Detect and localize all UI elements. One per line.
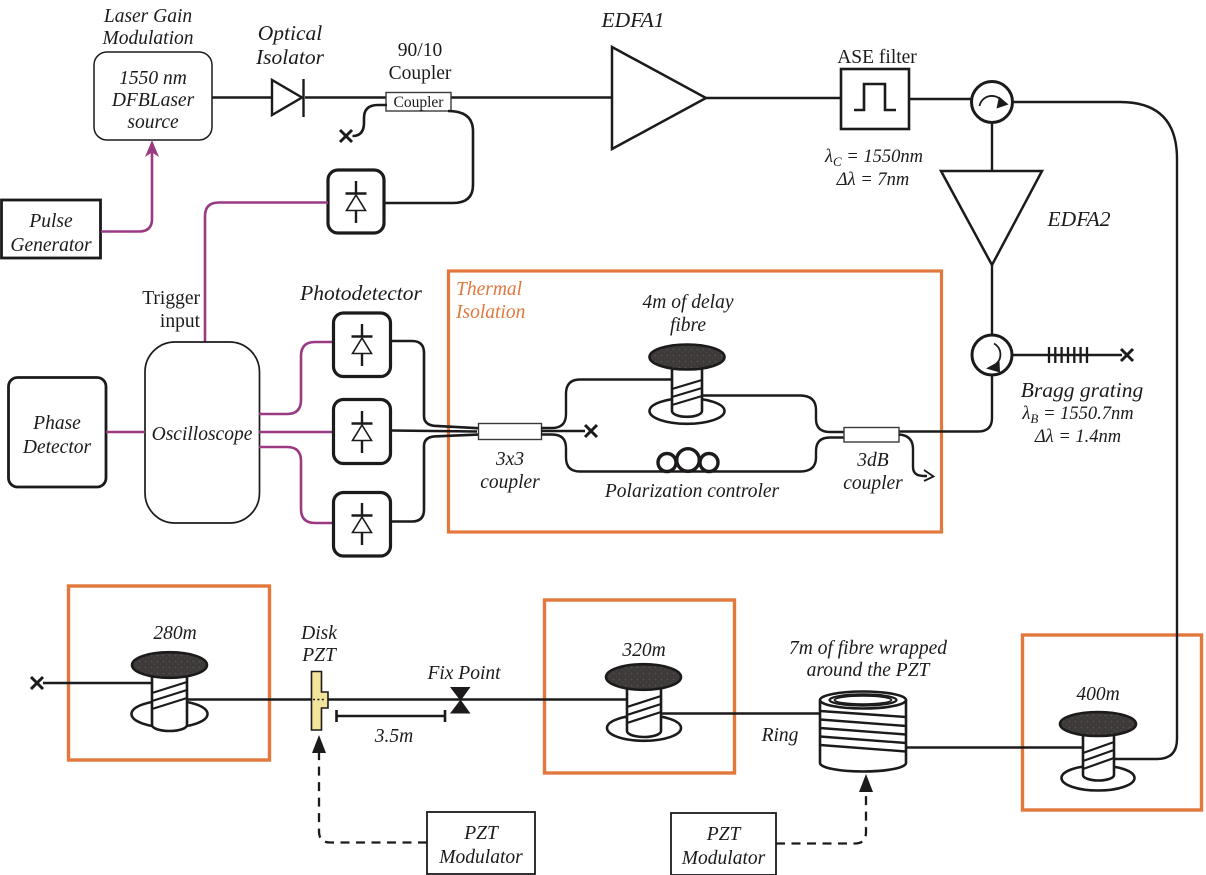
4m of delay fibre label (643, 292, 734, 336)
svg-text:Δλ = 7nm: Δλ = 7nm (836, 170, 909, 190)
svg-text:λB = 1550.7nm: λB = 1550.7nm (1021, 404, 1133, 426)
EDFA1 amplifier (612, 47, 706, 149)
wire coupler lower branch to monitor photodiode (384, 111, 473, 203)
black wire PD2 to 3x3 coupler (391, 431, 478, 432)
purple wire oscilloscope to PD3 (259, 447, 333, 523)
wire circulator2 bottom to 3dB coupler output (898, 375, 992, 432)
svg-text:Isolation: Isolation (455, 302, 525, 323)
orange box around 320m spool (545, 600, 735, 773)
wire 3x3 coupler top output to delay fibre (upper arm) (541, 380, 672, 429)
svg-text:Coupler: Coupler (389, 63, 452, 84)
purple wire oscilloscope to PD2 (259, 431, 333, 434)
wire circulator2 to bragg grating and X (1012, 354, 1122, 356)
svg-text:Modulation: Modulation (102, 28, 194, 49)
wire circulator1 right, feedback line down right side to 400m spool (1013, 102, 1177, 759)
svg-text:coupler: coupler (480, 472, 540, 493)
purple wire oscilloscope to PD1 (259, 342, 333, 414)
3x3 coupler box (479, 424, 542, 440)
PZT modulator box 1 (427, 812, 535, 874)
phase detector box (9, 378, 107, 488)
X mark below coupler (340, 130, 352, 142)
svg-text:320m: 320m (621, 640, 665, 661)
ASE bandpass icon (854, 84, 896, 110)
wire EDFA2 to circulator2 (991, 265, 993, 335)
svg-text:fibre: fibre (670, 315, 706, 336)
svg-text:Ring: Ring (761, 725, 799, 746)
svg-text:Coupler: Coupler (394, 94, 445, 111)
orange box around 400m spool (1023, 635, 1202, 810)
280m spool (132, 652, 208, 731)
svg-text:Pulse: Pulse (28, 211, 73, 232)
svg-text:source: source (127, 112, 179, 133)
3.5m measurement line (337, 710, 446, 722)
svg-text:Disk: Disk (300, 623, 337, 644)
svg-text:Δλ = 1.4nm: Δλ = 1.4nm (1034, 427, 1121, 447)
svg-text:ASE filter: ASE filter (837, 47, 917, 68)
svg-text:PZT: PZT (301, 645, 337, 666)
svg-text:EDFA1: EDFA1 (601, 8, 665, 32)
wire 320m spool to ring (661, 712, 820, 714)
svg-text:Isolator: Isolator (255, 45, 325, 69)
purple wire phase detector to oscilloscope (106, 431, 145, 434)
wire EDFA1 to ASE filter (706, 97, 841, 99)
svg-text:λC = 1550nm: λC = 1550nm (824, 147, 923, 169)
EDFA2 amplifier (941, 171, 1042, 265)
arrowhead into laser (145, 140, 159, 157)
svg-text:PZT: PZT (463, 823, 499, 844)
disk PZT element (312, 672, 329, 731)
svg-text:3x3: 3x3 (495, 449, 524, 470)
svg-text:Trigger: Trigger (142, 288, 200, 309)
photodetector PD3 (334, 493, 391, 557)
svg-text:around the PZT: around the PZT (807, 660, 931, 681)
svg-text:Optical: Optical (258, 21, 323, 45)
svg-text:Thermal: Thermal (456, 279, 522, 300)
svg-text:90/10: 90/10 (398, 40, 442, 61)
4m delay fibre spool (650, 345, 725, 424)
wire coupler to EDFA1 (451, 96, 612, 98)
photodetector PD1 (334, 313, 391, 377)
svg-text:Detector: Detector (22, 437, 92, 458)
svg-text:DFBLaser: DFBLaser (111, 90, 195, 111)
optical isolator diode (272, 79, 304, 117)
svg-text:Laser Gain: Laser Gain (103, 6, 192, 27)
400m spool (1060, 712, 1136, 791)
PZT modulator box 2 (671, 813, 776, 875)
svg-text:PZT: PZT (706, 824, 742, 845)
wire disk PZT to fix point to 320m spool (328, 698, 627, 700)
pulse generator box (2, 200, 101, 258)
bragg grating hash marks (1049, 347, 1087, 363)
purple trigger wire from monitor photodiode to oscilloscope (205, 203, 328, 343)
black wire PD1 to 3x3 coupler (391, 341, 479, 428)
X mark after bragg grating (1121, 349, 1133, 361)
svg-text:1550 nm: 1550 nm (119, 68, 187, 89)
black wire PD3 to 3x3 coupler (391, 435, 479, 522)
circulator 2 (972, 335, 1012, 375)
dashed wire PZT modulator 1 to disk PZT (319, 752, 427, 843)
svg-text:Oscilloscope: Oscilloscope (152, 424, 253, 445)
svg-text:400m: 400m (1076, 684, 1119, 705)
polarization controler loops (658, 449, 718, 472)
wire 3x3 coupler middle output to X (541, 430, 585, 432)
wire X to 280m spool (43, 682, 153, 684)
svg-text:Modulator: Modulator (438, 847, 523, 868)
wire ASE filter to circulator 1 (909, 98, 972, 100)
svg-text:Bragg grating: Bragg grating (1021, 378, 1144, 402)
laser box (94, 52, 212, 140)
320m spool (606, 664, 681, 741)
wire circulator1 to EDFA2 (991, 123, 993, 172)
svg-text:4m of delay: 4m of delay (643, 292, 734, 313)
oscilloscope box (145, 342, 260, 523)
7m of fibre label (789, 638, 947, 681)
coupler stub to X (353, 105, 388, 136)
label Laser Gain Modulation (102, 6, 194, 49)
thermal isolation orange box (449, 271, 942, 532)
circulator 1 (972, 82, 1013, 123)
wire laser to isolator (212, 96, 272, 98)
svg-text:280m: 280m (153, 623, 196, 644)
wire 280m spool to disk PZT (187, 698, 311, 700)
wire 3x3 coupler bottom output through polarization controler (lower arm) (541, 435, 844, 472)
svg-text:7m of fibre wrapped: 7m of fibre wrapped (789, 638, 947, 659)
X mark at 3x3 coupler output (585, 425, 597, 437)
dashed wire PZT modulator 2 to ring (776, 791, 866, 844)
svg-text:3.5m: 3.5m (374, 726, 413, 747)
svg-text:Photodetector: Photodetector (299, 281, 422, 305)
wire ring to 400m spool (906, 746, 1084, 748)
monitor photodiode box (near 90/10 coupler) (328, 170, 384, 233)
svg-text:3dB: 3dB (856, 450, 889, 471)
3dB coupler box (844, 428, 899, 443)
wire delay fibre to 3dB coupler (upper arm right) (702, 396, 844, 433)
svg-text:Fix Point: Fix Point (426, 663, 501, 684)
photodetector PD2 (334, 400, 391, 464)
90/10 coupler box (386, 93, 451, 112)
svg-text:EDFA2: EDFA2 (1047, 207, 1111, 231)
orange box around 280m spool (69, 586, 270, 760)
ASE filter box (841, 69, 909, 129)
PZT ring cylinder (820, 692, 906, 772)
svg-text:Generator: Generator (10, 235, 92, 256)
svg-text:Modulator: Modulator (681, 848, 766, 869)
svg-text:Polarization controler: Polarization controler (604, 481, 780, 502)
svg-text:Phase: Phase (32, 413, 81, 434)
fix point bowtie (451, 688, 470, 714)
ASE filter wavelength labels (824, 147, 923, 190)
X mark bottom-left fiber end (31, 677, 43, 689)
90/10 coupler label (389, 40, 452, 84)
purple wire pulse generator to laser (101, 152, 152, 232)
wire isolator to 90/10 coupler (305, 96, 386, 98)
disk PZT label (300, 623, 337, 666)
3dB coupler second output with arrow (899, 435, 927, 477)
trigger input label (142, 288, 200, 332)
svg-text:coupler: coupler (843, 473, 903, 494)
svg-text:input: input (160, 311, 201, 332)
